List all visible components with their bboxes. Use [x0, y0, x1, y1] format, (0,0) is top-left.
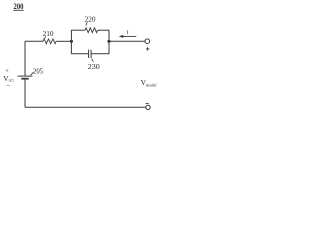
current arrow I (pointing left): [119, 35, 137, 38]
voltage source 205 (battery cell V_OCV): [18, 76, 33, 79]
value label 205 with leader: [30, 66, 43, 75]
junction node (left of RC pair): [70, 40, 73, 43]
capacitor C 230 (parallel plates): [89, 50, 92, 58]
label V_model (output voltage): [141, 78, 158, 87]
title label 200 (underlined figure number): [13, 2, 23, 11]
svg-text:230: 230: [88, 62, 100, 71]
wire: bottom branch right segment: [91, 53, 109, 55]
label + (positive terminal polarity): [146, 47, 149, 50]
terminal (negative output, open circle): [146, 105, 150, 109]
label V_OCV with + and - polarity marks: [3, 68, 14, 90]
value label 220 with leader: [85, 14, 96, 25]
svg-text:200: 200: [14, 2, 24, 11]
resistor R 220 (zigzag, top branch): [85, 28, 98, 33]
wire: right node to positive output terminal: [109, 40, 145, 42]
svg-text:−: −: [6, 82, 10, 90]
wire: top branch right segment: [98, 29, 109, 31]
svg-text:I: I: [127, 30, 129, 36]
value label 210 with leader: [43, 29, 54, 39]
wire: top branch left segment: [71, 29, 85, 31]
wire: top from corner to resistor 210: [25, 40, 43, 42]
terminal (positive output, open circle): [145, 39, 150, 44]
wire: below battery down to bottom rail: [24, 80, 26, 108]
svg-text:210: 210: [43, 29, 54, 38]
svg-text:220: 220: [85, 14, 96, 23]
right rail of parallel RC network: [108, 30, 110, 54]
label - (negative terminal polarity): [146, 102, 149, 104]
wire: resistor 210 to parallel network left node: [56, 40, 71, 42]
wire: bottom rail to negative output terminal: [25, 106, 146, 108]
junction node (right of RC pair): [107, 40, 110, 43]
wire: bottom branch left segment: [71, 53, 88, 55]
wire: left vertical from top-left corner down to battery + plate: [24, 41, 26, 76]
svg-text:model: model: [146, 83, 157, 88]
value label 230 with leader: [88, 59, 100, 71]
left rail of parallel RC network: [70, 30, 72, 54]
svg-text:205: 205: [33, 66, 43, 75]
resistor R 210 (zigzag): [43, 39, 56, 44]
